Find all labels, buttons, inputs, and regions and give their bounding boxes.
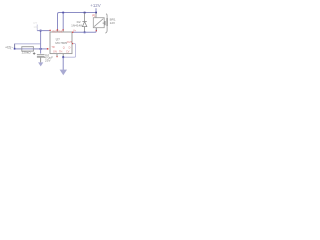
node junction diode bottom bbox=[84, 31, 86, 33]
lamp P1 bottom pin stub bbox=[96, 28, 97, 31]
node junction at ground net bbox=[62, 56, 64, 58]
pin end tick U1 left pin (red) bbox=[50, 30, 51, 31]
svg-text:DIS: DIS bbox=[58, 31, 63, 34]
resistor R1 220k (box style) bbox=[22, 47, 34, 51]
node junction at capacitor column bbox=[40, 48, 42, 50]
svg-text:+I2(−: +I2(− bbox=[5, 46, 13, 50]
svg-text:GN: GN bbox=[53, 50, 57, 53]
pin labels U1 (red) bbox=[51, 29, 76, 53]
wire rail to lamp P1 top pin bbox=[95, 13, 97, 18]
capacitor C2 (polarized) bbox=[33, 52, 45, 62]
wire rail to U1 pin RESET (second vertical drop) bbox=[62, 13, 63, 33]
svg-text:Q: Q bbox=[63, 47, 65, 50]
svg-text:10k: 10k bbox=[33, 25, 38, 29]
node junction on rail at x63 bbox=[62, 12, 64, 14]
ground (main) bbox=[60, 70, 67, 76]
svg-text:25V: 25V bbox=[45, 58, 51, 62]
svg-text:CV: CV bbox=[66, 50, 70, 53]
power flag +12V bbox=[90, 3, 100, 14]
svg-text:RST: RST bbox=[52, 31, 57, 34]
faint ghost label R? 10k bbox=[33, 21, 38, 29]
svg-text:V+: V+ bbox=[73, 29, 77, 32]
ground (capacitor C2) bbox=[38, 62, 43, 66]
wire column top to U1 left pin bbox=[37, 25, 50, 31]
U1 bottom pin 1 stub bbox=[56, 54, 58, 57]
wire vertical node column bbox=[40, 31, 42, 54]
wire J1 top pin to node column bbox=[15, 43, 41, 45]
pin end tick U1 right out pin (red) bbox=[72, 43, 73, 44]
input terminal J1 bbox=[5, 44, 16, 50]
node junction top of column bbox=[40, 30, 42, 32]
svg-text:TH: TH bbox=[59, 50, 63, 53]
U1 bottom pin 2 stub bbox=[62, 54, 64, 58]
wire down to ground bbox=[62, 57, 64, 70]
diode D2 1N4148 (flyback, cathode up) bbox=[82, 13, 86, 33]
svg-text:1N4148: 1N4148 bbox=[71, 23, 82, 27]
svg-text:D: D bbox=[69, 47, 71, 50]
wire rail to U1 pin VCC (left vertical drop) bbox=[57, 14, 58, 32]
svg-text:TR: TR bbox=[51, 46, 55, 49]
svg-text:+12V: +12V bbox=[90, 3, 100, 8]
wire J1 to resistor R1 bbox=[15, 48, 22, 50]
svg-text:MC7805: MC7805 bbox=[55, 41, 67, 45]
pin end tick U1 right top pin (red) bbox=[72, 32, 73, 33]
wire R1 to U1 trigger pin bbox=[33, 48, 48, 50]
svg-text:P1: P1 bbox=[92, 14, 96, 18]
svg-text:220kΩ: 220kΩ bbox=[22, 50, 32, 54]
svg-text:OUT: OUT bbox=[67, 41, 73, 44]
pin end tick U1 bottom pin 1 (red) bbox=[56, 56, 57, 57]
wire U1 right pin around to ground net bbox=[63, 44, 75, 58]
wire +12V rail (top horizontal) bbox=[58, 13, 97, 15]
node junction diode top on rail bbox=[84, 12, 86, 14]
wire U1 output pin to lamp P1 bottom pin bbox=[73, 29, 96, 33]
battery BR1 12V bbox=[103, 14, 108, 33]
lamp P1 (rectangle with diagonal) bbox=[93, 18, 104, 28]
svg-text:12V: 12V bbox=[110, 21, 116, 25]
IC U1 MC7805 (main box) bbox=[50, 32, 72, 54]
